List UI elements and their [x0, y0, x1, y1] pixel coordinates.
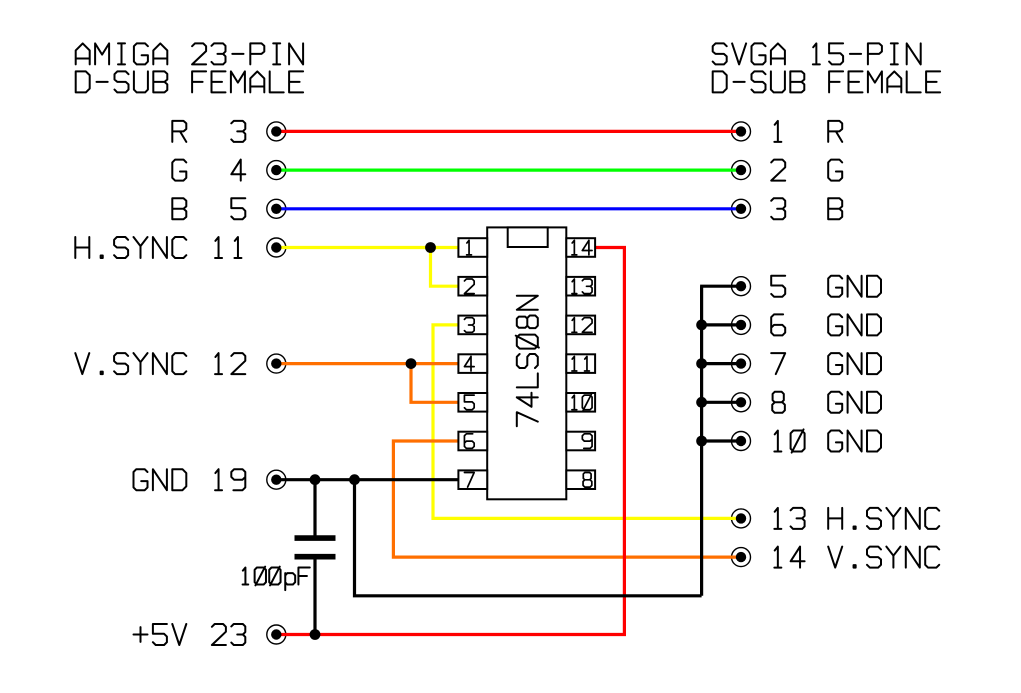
Amiga pin 12 contact dot	[271, 358, 281, 368]
SVGA connector pin 13 (H.SYNC) socket	[732, 509, 751, 528]
SVGA connector pin 3 (B) socket	[732, 199, 751, 218]
SVGA connector pin 5 (GND) socket	[732, 277, 751, 296]
header: D-SUB FEMALE (right)	[713, 71, 940, 92]
Amiga pin 23 contact dot	[271, 629, 281, 639]
IC U1 pin 11 box and number	[566, 354, 595, 373]
junction: V.SYNC junction	[406, 358, 417, 369]
SVGA connector pin 14 (V.SYNC) socket	[732, 548, 751, 567]
Amiga pin 11 contact dot	[271, 242, 281, 252]
IC U1 part label 74LS08N (rotated)	[516, 296, 539, 426]
wire Red video: Amiga pin 3 to SVGA pin 1	[276, 130, 741, 133]
SVGA connector pin 6 (GND) socket	[732, 315, 751, 334]
Amiga connector pin 4 (G) socket	[267, 161, 286, 180]
Amiga pin 4 contact dot	[271, 165, 281, 175]
IC U1 pin 13 box and number	[566, 277, 595, 296]
IC U1 pin 14 box and number	[566, 238, 595, 257]
IC U1 orientation notch	[508, 227, 548, 247]
label: SVGA pin 8 GND	[772, 392, 785, 413]
wire GND stub to SVGA pin 10	[702, 439, 741, 442]
label: Amiga H.SYNC pin 11	[75, 237, 186, 258]
label: SVGA pin 2 G	[771, 160, 785, 181]
wire V.SYNC: Amiga pin 12 to U1 pin 4	[276, 362, 460, 365]
label: SVGA pin 1 R	[774, 121, 781, 142]
wire: capacitor C1 bottom plate down to +5V net	[313, 557, 316, 635]
wire H.SYNC branch: junction down to U1 pin 2	[431, 248, 461, 287]
wire GND: Amiga pin 19 to U1 pin 7	[276, 478, 460, 481]
IC U1 pin 2 box and number	[458, 277, 487, 296]
wire +5V: U1 pin 14 right, down and left to Amiga pin 23	[276, 248, 624, 635]
SVGA pin 7 contact dot	[736, 358, 746, 368]
junction: +5V junction at capacitor	[310, 629, 321, 640]
wire H.SYNC out: U1 pin 3 down to SVGA pin 13	[433, 325, 741, 519]
junction: GND bus junction pin 7	[696, 358, 707, 369]
label: SVGA pin 5 GND	[771, 276, 785, 297]
wire GND stub to SVGA pin 5	[700, 285, 741, 288]
SVGA pin 3 contact dot	[736, 204, 746, 214]
label: Amiga R pin 3	[172, 121, 186, 142]
label: SVGA pin 14 V.SYNC	[774, 547, 804, 568]
label: Amiga G pin 4	[172, 160, 186, 181]
Amiga pin 3 contact dot	[271, 126, 281, 136]
SVGA connector pin 10 (GND) socket	[732, 432, 751, 451]
header: D-SUB FEMALE (left)	[76, 71, 303, 92]
IC U1 pin 8 box and number	[566, 470, 595, 489]
SVGA connector pin 1 (R) socket	[732, 122, 751, 141]
Amiga connector pin 19 (GND) socket	[267, 470, 286, 489]
SVGA pin 13 contact dot	[736, 513, 746, 523]
junction: GND bus junction pin 10	[696, 436, 707, 447]
capacitor C1 value label 100pF	[243, 567, 310, 591]
junction: GND bus junction pin 8	[696, 397, 707, 408]
wire H.SYNC: Amiga pin 11 to U1 pin 1	[276, 246, 460, 249]
IC U1 pin 5 box and number	[458, 393, 487, 412]
SVGA pin 6 contact dot	[736, 320, 746, 330]
Amiga connector pin 5 (B) socket	[267, 199, 286, 218]
SVGA pin 8 contact dot	[736, 397, 746, 407]
junction: GND junction at capacitor	[310, 474, 321, 485]
wire GND stub to SVGA pin 7	[702, 362, 741, 365]
Amiga connector pin 3 (R) socket	[267, 122, 286, 141]
Amiga connector pin 12 (V.SYNC) socket	[267, 354, 286, 373]
Amiga connector pin 11 (H.SYNC) socket	[267, 238, 286, 257]
capacitor C1 100pF top plate	[295, 535, 336, 541]
SVGA pin 2 contact dot	[736, 165, 746, 175]
wire GND stub to SVGA pin 6	[702, 323, 741, 326]
SVGA pin 14 contact dot	[736, 552, 746, 562]
label: Amiga B pin 5	[172, 198, 186, 219]
wire Green video: Amiga pin 4 to SVGA pin 2	[276, 169, 741, 172]
IC U1 pin 9 box and number	[566, 432, 595, 451]
junction: GND junction to bus	[349, 474, 360, 485]
wire GND stub to SVGA pin 8	[702, 401, 741, 404]
Amiga connector pin 23 (+5V) socket	[267, 625, 286, 644]
capacitor C1 100pF bottom plate	[295, 554, 336, 560]
IC U1 pin 1 box and number	[458, 238, 487, 257]
junction: H.SYNC junction	[425, 242, 436, 253]
IC U1 pin 3 box and number	[458, 316, 487, 335]
wire GND: junction down to capacitor C1 top plate	[313, 480, 316, 536]
header: SVGA 15-PIN	[713, 43, 921, 64]
Amiga pin 5 contact dot	[271, 204, 281, 214]
SVGA connector pin 7 (GND) socket	[732, 354, 751, 373]
label: Amiga V.SYNC pin 12	[75, 353, 186, 374]
wire Blue video: Amiga pin 5 to SVGA pin 3	[276, 207, 741, 210]
SVGA pin 10 contact dot	[736, 436, 746, 446]
label: SVGA pin 13 H.SYNC	[774, 508, 804, 529]
header: AMIGA 23-PIN	[76, 43, 303, 64]
SVGA connector pin 2 (G) socket	[732, 161, 751, 180]
IC U1 pin 6 box and number	[458, 432, 487, 451]
IC U1 pin 4 box and number	[458, 354, 487, 373]
SVGA pin 5 contact dot	[736, 281, 746, 291]
op-amp/IC U1 74LS08N body	[487, 227, 566, 499]
label: Amiga +5V pin 23	[134, 624, 187, 645]
Amiga pin 19 contact dot	[271, 475, 281, 485]
label: SVGA pin 7 GND	[771, 353, 785, 374]
SVGA pin 1 contact dot	[736, 126, 746, 136]
IC U1 pin 12 box and number	[566, 316, 595, 335]
label: SVGA pin 10 GND	[774, 429, 804, 452]
IC U1 pin 7 box and number	[458, 470, 487, 489]
label: SVGA pin 6 GND	[771, 314, 785, 335]
wire V.SYNC branch: junction down to U1 pin 5	[411, 364, 460, 403]
wire GND: junction down and right to SVGA ground bus	[355, 480, 702, 596]
wire GND bus vertical on SVGA side	[700, 286, 703, 596]
IC U1 pin 10 box and number	[566, 393, 595, 412]
junction: GND bus junction pin 6	[696, 320, 707, 331]
label: SVGA pin 3 B	[771, 198, 785, 219]
label: Amiga GND pin 19	[134, 469, 187, 490]
wire V.SYNC out: U1 pin 6 down to SVGA pin 14	[393, 441, 741, 557]
SVGA connector pin 8 (GND) socket	[732, 393, 751, 412]
